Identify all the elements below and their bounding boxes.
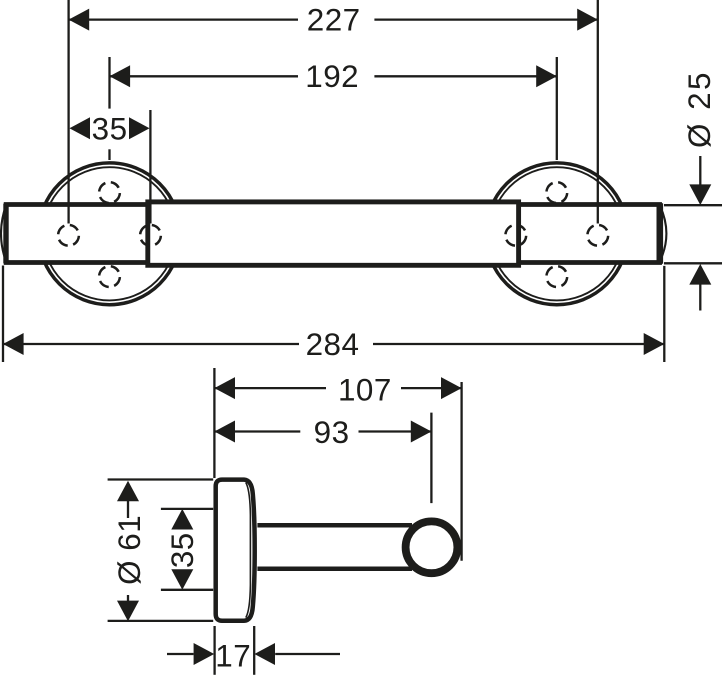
svg-text:192: 192 [305,59,359,94]
svg-text:35: 35 [165,532,200,568]
svg-text:Ø 61: Ø 61 [112,515,147,585]
svg-text:35: 35 [92,112,128,147]
svg-text:107: 107 [338,372,392,407]
svg-text:93: 93 [314,415,350,450]
svg-text:227: 227 [307,2,361,37]
svg-text:284: 284 [306,327,360,362]
svg-text:Ø 25: Ø 25 [682,70,717,148]
svg-text:17: 17 [215,638,251,673]
